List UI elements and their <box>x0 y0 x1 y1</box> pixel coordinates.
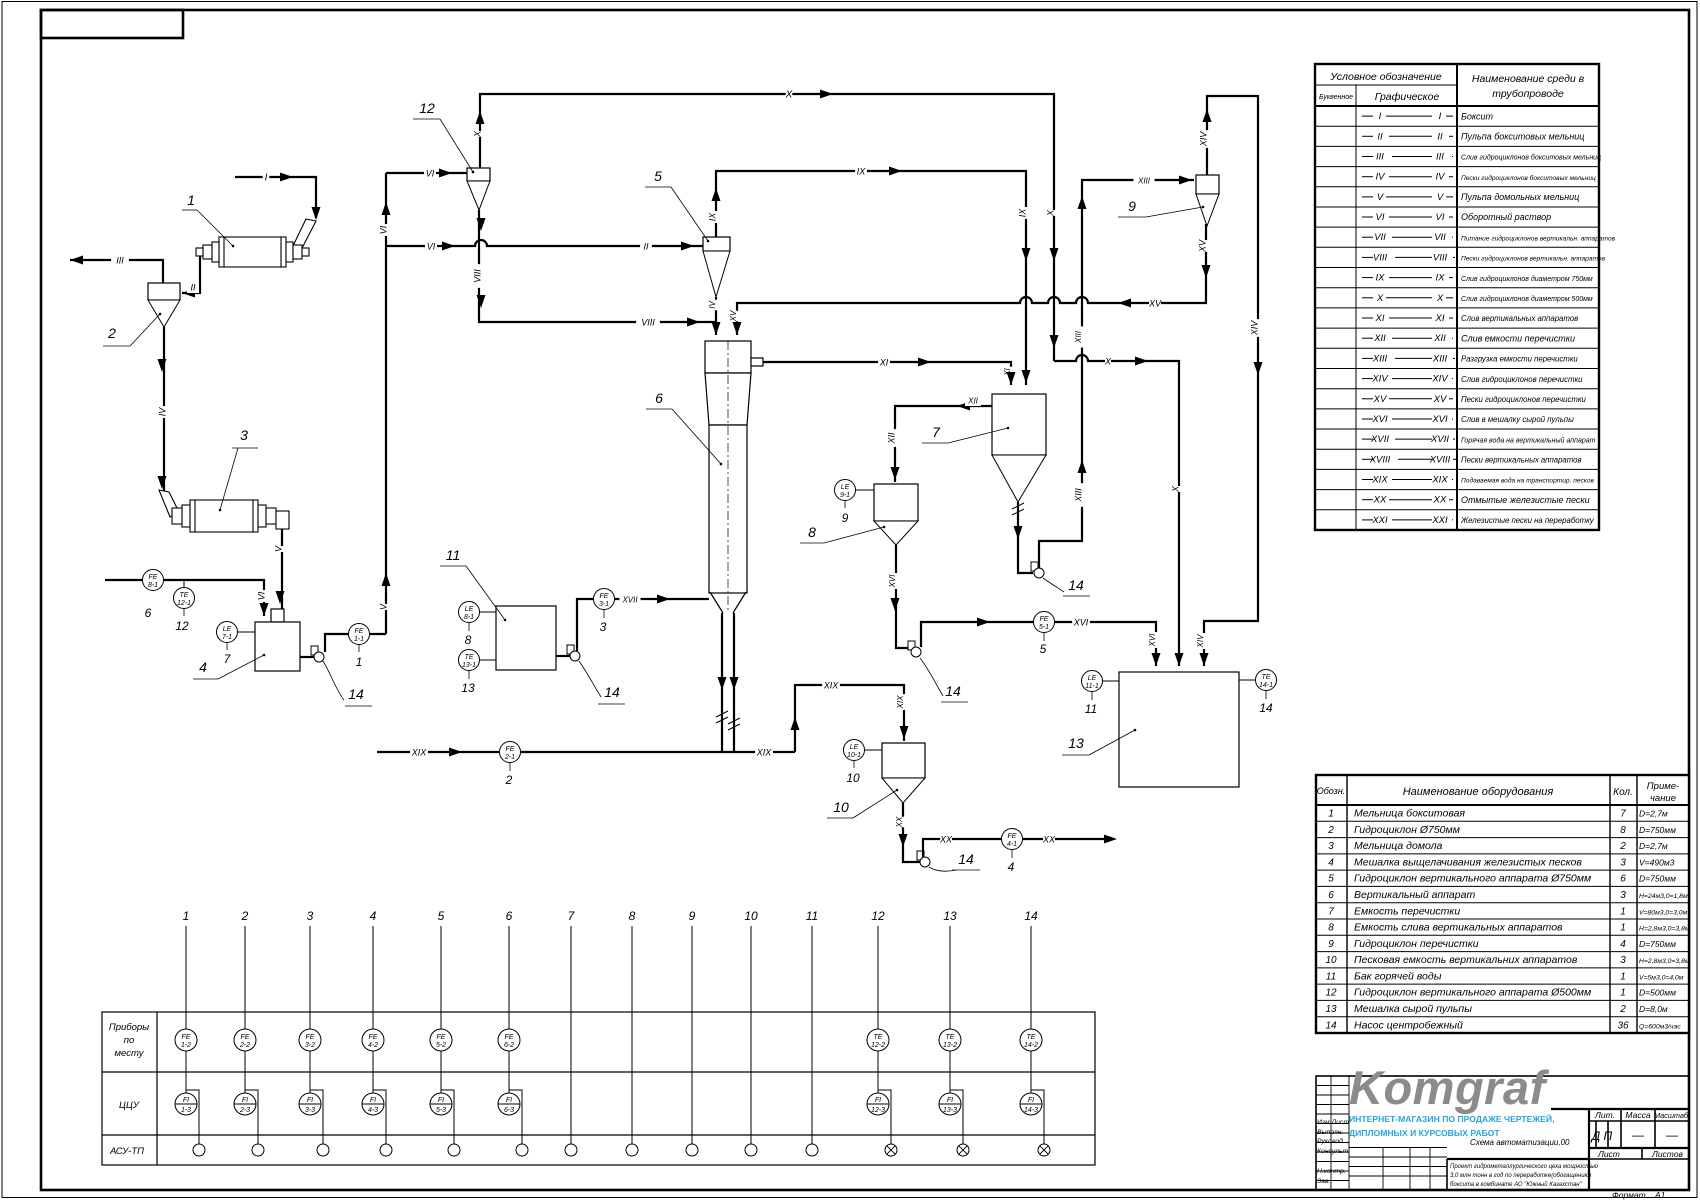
svg-text:12: 12 <box>1325 988 1337 999</box>
svg-text:Изм.Лист: Изм.Лист <box>1317 1119 1349 1126</box>
svg-text:IX: IX <box>707 212 717 222</box>
svg-text:Приборы: Приборы <box>109 1022 149 1033</box>
wire XIX transport water line with FE 2-1 <box>377 751 795 753</box>
svg-text:Листов: Листов <box>1651 1149 1684 1159</box>
svg-text:1-1: 1-1 <box>354 636 364 643</box>
svg-text:Кол.: Кол. <box>1613 787 1633 798</box>
wire hydrocyclone 5 overflow (IX) to tank 7 <box>716 171 1026 385</box>
svg-text:4-1: 4-1 <box>1007 841 1017 848</box>
wire XVII hot water to apparatus 6 with FE 3-1 <box>577 599 709 651</box>
svg-text:XIII: XIII <box>1432 353 1448 364</box>
legend row IV <box>1315 186 1599 188</box>
svg-text:TE: TE <box>946 1034 955 1041</box>
svg-text:XIII: XIII <box>1073 488 1083 503</box>
svg-text:Гидроциклон вертикального аппа: Гидроциклон вертикального аппарата Ø750м… <box>1354 873 1591 885</box>
svg-text:VII: VII <box>1434 232 1446 243</box>
svg-text:Емкость перечистки: Емкость перечистки <box>1354 905 1460 917</box>
svg-text:VIII: VIII <box>1433 252 1448 263</box>
svg-text:XI: XI <box>1375 313 1385 324</box>
svg-text:XIX: XIX <box>1371 475 1388 486</box>
svg-text:8: 8 <box>1620 825 1626 836</box>
equipment row 9 <box>1316 951 1689 953</box>
svg-text:8: 8 <box>629 909 636 923</box>
equipment row 10 <box>1316 967 1689 969</box>
svg-text:Руковод.: Руковод. <box>1317 1137 1345 1145</box>
svg-text:14: 14 <box>1024 909 1038 923</box>
svg-text:XIV: XIV <box>1431 374 1449 385</box>
svg-text:36: 36 <box>1617 1020 1629 1031</box>
svg-text:2-1: 2-1 <box>504 754 515 761</box>
equipment row 2 <box>1316 837 1689 839</box>
svg-text:XVIII: XVIII <box>1429 454 1451 465</box>
svg-text:XXI: XXI <box>1371 515 1388 526</box>
svg-text:X: X <box>1436 293 1444 304</box>
legend row XI <box>1315 327 1599 329</box>
svg-text:FE: FE <box>1040 616 1049 623</box>
svg-text:Слив гидроциклонов перечистки: Слив гидроциклонов перечистки <box>1461 375 1583 384</box>
mill 3 (regrind mill) <box>172 500 289 532</box>
svg-text:11: 11 <box>1085 702 1097 716</box>
svg-text:Гидроциклон перечистки: Гидроциклон перечистки <box>1354 938 1479 950</box>
svg-text:XIV: XIV <box>1371 374 1389 385</box>
svg-text:2: 2 <box>241 909 249 923</box>
svg-text:II: II <box>1377 131 1383 142</box>
mill 1 (bauxite mill) <box>196 237 309 267</box>
svg-text:XI: XI <box>879 358 889 368</box>
wire XX washed sand out with FE 4-1 <box>923 839 1104 857</box>
svg-text:X: X <box>1376 293 1384 304</box>
svg-text:11: 11 <box>806 909 818 923</box>
legend row VIII <box>1315 267 1599 269</box>
svg-text:XIX: XIX <box>896 695 905 710</box>
svg-text:XVII: XVII <box>621 596 638 605</box>
svg-text:IV: IV <box>157 407 167 417</box>
instrument strip table <box>102 1012 1095 1165</box>
wire hydrocyclone 5 underflow (IV) into apparatus 6 <box>715 297 717 335</box>
svg-text:Бак горячей воды: Бак горячей воды <box>1354 970 1442 982</box>
svg-text:9: 9 <box>842 511 849 525</box>
svg-text:FE: FE <box>600 593 609 600</box>
svg-text:FE: FE <box>1008 833 1017 840</box>
svg-text:D=2,7м: D=2,7м <box>1639 841 1668 851</box>
wire stream VI to mixer 4 with FE 8-1 and TE 12-1 <box>105 580 264 616</box>
svg-text:Консульт.: Консульт. <box>1317 1148 1350 1155</box>
svg-text:9-1: 9-1 <box>840 492 850 499</box>
wire XVI to mixer 13 with FE 5-1 <box>921 622 1156 666</box>
svg-text:14: 14 <box>1259 701 1273 715</box>
legend row IX <box>1315 287 1599 289</box>
svg-text:2: 2 <box>1619 841 1626 852</box>
svg-text:10: 10 <box>744 909 758 923</box>
wire tank 7 bottom to pump 14 <box>1018 502 1033 573</box>
svg-text:D=750мм: D=750мм <box>1639 939 1676 949</box>
svg-text:4: 4 <box>1328 857 1334 868</box>
svg-text:10: 10 <box>846 771 860 785</box>
svg-text:TE: TE <box>1027 1034 1036 1041</box>
svg-text:II: II <box>190 283 196 293</box>
svg-text:VI: VI <box>1376 212 1385 223</box>
pump 14 at mixer 4 <box>300 656 314 658</box>
svg-text:14: 14 <box>348 686 364 702</box>
legend row XIII <box>1315 368 1599 370</box>
svg-text:3: 3 <box>600 620 607 634</box>
svg-text:13-3: 13-3 <box>943 1107 957 1114</box>
svg-text:Наименование среди в: Наименование среди в <box>1472 73 1585 85</box>
wire stream I feed <box>235 177 316 218</box>
svg-text:3: 3 <box>1328 841 1334 852</box>
equipment row 11 <box>1316 983 1689 985</box>
svg-text:Слив гидроциклонов диаметром 7: Слив гидроциклонов диаметром 750мм <box>1461 275 1593 283</box>
svg-text:FE: FE <box>505 1034 514 1041</box>
svg-text:1: 1 <box>1620 906 1626 917</box>
svg-text:XX: XX <box>939 835 953 845</box>
svg-text:TE: TE <box>465 654 474 661</box>
svg-text:боксита в комбинате АО "Южный: боксита в комбинате АО "Южный Казахстан" <box>1450 1181 1583 1188</box>
svg-text:FI: FI <box>875 1097 881 1104</box>
pump 14 at tank 7 <box>1031 562 1038 571</box>
hydrocyclone 9 <box>1196 175 1219 194</box>
svg-text:Насос центробежный: Насос центробежный <box>1354 1019 1463 1031</box>
svg-text:FE: FE <box>506 746 515 753</box>
svg-text:чание: чание <box>1650 793 1676 804</box>
svg-text:1: 1 <box>1620 988 1626 999</box>
svg-text:XIX: XIX <box>823 681 840 691</box>
svg-text:Схема автоматизации,00: Схема автоматизации,00 <box>1470 1138 1570 1147</box>
legend row XIV <box>1315 388 1599 390</box>
svg-text:Железистые пески на переработк: Железистые пески на переработку <box>1460 516 1595 525</box>
wire tank 10 discharge to pump <box>903 803 920 862</box>
svg-text:XV: XV <box>1148 299 1162 309</box>
tank 8 <box>874 484 918 521</box>
svg-text:X: X <box>472 130 482 138</box>
svg-text:1-2: 1-2 <box>181 1042 191 1049</box>
wire tank 7 overflow (XII) down to tank 8 <box>895 406 992 482</box>
svg-text:FI: FI <box>506 1097 512 1104</box>
svg-text:5-1: 5-1 <box>1039 624 1049 631</box>
svg-text:13: 13 <box>1068 735 1084 751</box>
wire overflow XI from apparatus 6 to tank 7 <box>763 362 1011 385</box>
svg-text:FI: FI <box>947 1097 953 1104</box>
svg-text:Пески гидроциклонов вертикальн: Пески гидроциклонов вертикальн. аппарато… <box>1461 255 1606 263</box>
legend row VII <box>1315 246 1599 248</box>
svg-text:Мельница домола: Мельница домола <box>1354 840 1443 852</box>
svg-text:12-3: 12-3 <box>871 1107 885 1114</box>
svg-text:8: 8 <box>1328 923 1334 934</box>
wire tank 8 discharge to pump <box>896 545 911 648</box>
svg-text:XX: XX <box>1433 495 1447 506</box>
equipment row 4 <box>1316 869 1689 871</box>
svg-text:Пески гидроциклонов бокситовых: Пески гидроциклонов бокситовых мельниц <box>1461 174 1596 182</box>
legend row XVI <box>1315 428 1599 430</box>
legend row VI <box>1315 226 1599 228</box>
svg-text:FI: FI <box>242 1097 248 1104</box>
svg-text:Н.контр.: Н.контр. <box>1317 1168 1346 1175</box>
svg-text:2: 2 <box>1619 1004 1626 1015</box>
svg-text:X: X <box>1170 485 1180 493</box>
svg-text:4: 4 <box>370 909 377 923</box>
svg-text:LE: LE <box>841 484 850 491</box>
svg-text:IX: IX <box>1376 273 1386 284</box>
svg-text:3-1: 3-1 <box>599 601 609 608</box>
equipment table <box>1316 775 1689 1033</box>
svg-text:14: 14 <box>945 683 961 699</box>
svg-text:D=750мм: D=750мм <box>1639 874 1676 884</box>
svg-text:Условное обозначение: Условное обозначение <box>1329 71 1442 83</box>
tank 7 (emkost perechistki) <box>992 394 1046 455</box>
svg-text:по: по <box>124 1035 135 1046</box>
legend row XVII <box>1315 448 1599 450</box>
svg-text:Пульпа бокситовых мельниц: Пульпа бокситовых мельниц <box>1461 132 1584 142</box>
svg-text:3: 3 <box>1620 857 1626 868</box>
svg-text:4: 4 <box>1620 939 1626 950</box>
svg-text:XIII: XIII <box>1372 353 1388 364</box>
wire hydrocyclone 9 overflow (XIV) to mixer 13 <box>1204 96 1258 666</box>
svg-text:V=5м3,0=4,0м: V=5м3,0=4,0м <box>1639 974 1684 981</box>
svg-text:ИНТЕРНЕТ-МАГАЗИН ПО ПРОДАЖЕ ЧЕ: ИНТЕРНЕТ-МАГАЗИН ПО ПРОДАЖЕ ЧЕРТЕЖЕЙ, <box>1349 1113 1554 1124</box>
equipment row 7 <box>1316 918 1689 920</box>
title block left grid <box>1316 1076 1447 1190</box>
svg-text:13-2: 13-2 <box>943 1042 957 1049</box>
svg-text:II: II <box>1437 131 1443 142</box>
svg-text:2-2: 2-2 <box>239 1042 250 1049</box>
svg-text:Отмытые железистые пески: Отмытые железистые пески <box>1461 495 1590 505</box>
svg-text:LE: LE <box>465 606 474 613</box>
svg-text:Пульпа домольных мельниц: Пульпа домольных мельниц <box>1461 192 1579 202</box>
svg-text:Боксит: Боксит <box>1461 111 1494 121</box>
svg-text:XII: XII <box>1373 333 1386 344</box>
svg-text:XVI: XVI <box>1431 414 1448 425</box>
svg-text:6: 6 <box>145 606 152 620</box>
svg-text:FI: FI <box>307 1097 313 1104</box>
svg-text:XVI: XVI <box>1371 414 1388 425</box>
svg-text:11-1: 11-1 <box>1085 683 1099 690</box>
svg-text:III: III <box>1376 152 1384 163</box>
svg-text:ДИПЛОМНЫХ И КУРСОВЫХ РАБОТ: ДИПЛОМНЫХ И КУРСОВЫХ РАБОТ <box>1349 1128 1500 1138</box>
mixer 13 (raw pulp mixer) <box>1119 672 1239 787</box>
wire XIII riser from pump to hydrocyclone 9 <box>1039 180 1194 568</box>
svg-text:5: 5 <box>1040 642 1047 656</box>
wire hydrocyclone 2 underflow (IV) to mill 3 <box>163 327 165 492</box>
instrument LE 11-1 <box>1102 680 1119 682</box>
svg-text:6-2: 6-2 <box>504 1042 514 1049</box>
svg-text:1-3: 1-3 <box>181 1107 191 1114</box>
equipment row 5 <box>1316 885 1689 887</box>
legend row XVIII <box>1315 468 1599 470</box>
svg-text:Слив емкости перечистки: Слив емкости перечистки <box>1461 333 1575 343</box>
svg-text:Слив гидроциклонов диаметром 5: Слив гидроциклонов диаметром 500мм <box>1461 295 1593 303</box>
svg-text:TE: TE <box>180 592 189 599</box>
svg-text:FE: FE <box>355 628 364 635</box>
svg-text:2-3: 2-3 <box>239 1107 250 1114</box>
svg-text:14: 14 <box>604 684 620 700</box>
wire II/VI feed to hydrocyclone 5 <box>386 240 703 246</box>
instrument LE 8-1 <box>479 611 496 613</box>
svg-text:6: 6 <box>506 909 513 923</box>
svg-text:8: 8 <box>808 524 816 540</box>
svg-text:Масштаб: Масштаб <box>1654 1111 1689 1120</box>
wire riser V/VI <box>385 173 387 634</box>
svg-text:XI: XI <box>1435 313 1445 324</box>
svg-text:FE: FE <box>369 1034 378 1041</box>
pump 14 at tank 8 <box>908 641 915 650</box>
svg-text:Песковая емкость вертикальних: Песковая емкость вертикальних аппаратов <box>1354 954 1578 966</box>
legend row V <box>1315 206 1599 208</box>
svg-text:XV: XV <box>729 310 738 322</box>
svg-text:11: 11 <box>1326 971 1336 982</box>
svg-text:X: X <box>1104 357 1112 367</box>
svg-text:Обозн.: Обозн. <box>1317 786 1346 796</box>
svg-text:2: 2 <box>107 325 116 341</box>
legend row II <box>1315 145 1599 147</box>
svg-text:10: 10 <box>833 799 849 815</box>
svg-text:Формат: Формат <box>1612 1190 1646 1200</box>
svg-text:XV: XV <box>1373 394 1388 405</box>
svg-text:XII: XII <box>1433 333 1446 344</box>
svg-text:IV: IV <box>708 301 717 309</box>
svg-text:Мешалка выщелачивания железист: Мешалка выщелачивания железистых песков <box>1354 856 1582 868</box>
svg-text:Мельница бокситовая: Мельница бокситовая <box>1354 808 1465 820</box>
svg-text:VI: VI <box>378 225 388 234</box>
svg-text:X: X <box>785 90 793 101</box>
wire hydrocyclone 12 overflow (X) to mixer 13 <box>480 94 1054 361</box>
svg-text:X: X <box>1045 209 1055 217</box>
svg-text:месту: месту <box>115 1048 145 1059</box>
svg-text:XVII: XVII <box>1370 434 1389 445</box>
svg-text:5: 5 <box>654 168 662 184</box>
svg-text:FI: FI <box>370 1097 376 1104</box>
wire XV from hydrocyclone 9 into apparatus 6 <box>737 224 1206 335</box>
svg-text:Подаваемая вода на транспортир: Подаваемая вода на транспортир. песков <box>1461 477 1595 485</box>
instrument LE 7-1 <box>237 631 255 633</box>
svg-text:Проект гидрометаллургического: Проект гидрометаллургического цеха мощно… <box>1450 1164 1598 1170</box>
svg-text:12: 12 <box>175 619 189 633</box>
hydrocyclone 2 <box>148 283 180 300</box>
svg-text:VI: VI <box>427 242 436 252</box>
svg-text:Слив гидроциклонов бокситовых: Слив гидроциклонов бокситовых мельниц <box>1461 154 1601 162</box>
svg-text:9: 9 <box>1328 939 1334 950</box>
svg-text:VIII: VIII <box>1373 252 1388 263</box>
svg-text:III: III <box>116 256 124 266</box>
instrument TE 14-1 <box>1239 679 1256 681</box>
svg-text:D=2,7м: D=2,7м <box>1639 809 1668 819</box>
svg-text:XVI: XVI <box>1073 618 1089 628</box>
svg-text:LE: LE <box>223 626 232 633</box>
svg-text:5: 5 <box>1328 874 1334 885</box>
svg-text:XII: XII <box>967 397 979 406</box>
svg-text:Выполн.: Выполн. <box>1317 1129 1343 1136</box>
hydrocyclone 12 <box>467 168 490 181</box>
pump 14 at box 11 <box>556 655 570 657</box>
svg-text:8: 8 <box>465 633 472 647</box>
svg-text:14: 14 <box>958 851 974 867</box>
svg-text:12: 12 <box>419 100 435 116</box>
svg-text:1: 1 <box>1328 809 1334 820</box>
svg-text:Емкость слива вертикальных апп: Емкость слива вертикальных аппаратов <box>1354 922 1563 934</box>
svg-text:12: 12 <box>871 909 885 923</box>
svg-text:7-1: 7-1 <box>222 634 232 641</box>
svg-text:3-2: 3-2 <box>305 1042 315 1049</box>
svg-text:4-2: 4-2 <box>368 1042 378 1049</box>
svg-text:4: 4 <box>1008 860 1015 874</box>
svg-text:Komgraf: Komgraf <box>1349 1061 1550 1114</box>
top-left stamp rectangle <box>41 10 183 38</box>
svg-text:XXI: XXI <box>1431 515 1448 526</box>
svg-text:VI: VI <box>426 169 435 179</box>
svg-text:1: 1 <box>356 655 363 669</box>
svg-text:FE: FE <box>437 1034 446 1041</box>
svg-text:IX: IX <box>857 167 867 177</box>
svg-text:Пески гидроциклонов перечистки: Пески гидроциклонов перечистки <box>1461 395 1587 404</box>
svg-text:VII: VII <box>1374 232 1386 243</box>
svg-text:VI: VI <box>256 591 266 600</box>
svg-text:Д П: Д П <box>1590 1129 1613 1143</box>
svg-text:FE: FE <box>241 1034 250 1041</box>
wire mill 3 discharge (V) to mixer 4 <box>281 529 283 610</box>
svg-text:D=750мм: D=750мм <box>1639 825 1676 835</box>
svg-text:XV: XV <box>1197 239 1207 253</box>
svg-text:XIII: XIII <box>1074 330 1083 344</box>
svg-text:I: I <box>1439 111 1442 122</box>
wire hydrocyclone 2 overflow (III) <box>70 260 163 283</box>
legend row XII <box>1315 347 1599 349</box>
mill 3 feed chute <box>159 490 179 517</box>
svg-text:5-3: 5-3 <box>436 1107 446 1114</box>
svg-text:3: 3 <box>1620 955 1626 966</box>
svg-text:13: 13 <box>943 909 957 923</box>
svg-text:7: 7 <box>1620 809 1626 820</box>
svg-text:Питание гидроциклонов вертикал: Питание гидроциклонов вертикальн. аппара… <box>1461 234 1616 242</box>
svg-text:XIII: XIII <box>1137 177 1151 186</box>
svg-text:FE: FE <box>182 1034 191 1041</box>
svg-text:А1: А1 <box>1654 1190 1666 1200</box>
svg-text:9: 9 <box>689 909 696 923</box>
svg-text:Лист: Лист <box>1597 1149 1620 1159</box>
svg-text:TE: TE <box>874 1034 883 1041</box>
svg-text:V: V <box>273 545 283 552</box>
svg-text:АСУ-ТП: АСУ-ТП <box>109 1146 144 1157</box>
svg-text:Вертикальный аппарат: Вертикальный аппарат <box>1354 889 1475 901</box>
svg-text:XX: XX <box>1373 495 1387 506</box>
svg-text:H=2,8м3,0=3,8м: H=2,8м3,0=3,8м <box>1639 958 1690 965</box>
svg-text:14: 14 <box>1068 577 1084 593</box>
svg-text:XII: XII <box>886 432 896 445</box>
title block frame <box>1316 1076 1689 1190</box>
svg-text:2: 2 <box>505 773 513 787</box>
svg-text:Гидроциклон Ø750мм: Гидроциклон Ø750мм <box>1354 824 1460 836</box>
svg-text:Горячая вода на вертикальный а: Горячая вода на вертикальный аппарат <box>1461 436 1596 444</box>
svg-text:—: — <box>1666 1128 1678 1142</box>
svg-text:Слив в мешалку сырой пульпы: Слив в мешалку сырой пульпы <box>1461 415 1574 424</box>
svg-text:II: II <box>643 242 649 252</box>
wire apparatus 6 sand legs (XVIII) <box>721 613 723 752</box>
svg-text:13: 13 <box>461 681 475 695</box>
svg-text:4-3: 4-3 <box>368 1107 378 1114</box>
equipment row 13 <box>1316 1016 1689 1018</box>
wire X horizontal to tank 13 riser <box>1054 355 1179 666</box>
svg-text:XIX: XIX <box>756 748 773 758</box>
svg-text:XVI: XVI <box>888 574 897 589</box>
svg-text:XVIII: XVIII <box>1369 454 1391 465</box>
svg-text:FI: FI <box>1028 1097 1034 1104</box>
svg-text:7: 7 <box>932 424 941 440</box>
wire VI to hydrocyclone 12 <box>386 172 467 174</box>
svg-text:4: 4 <box>199 659 207 675</box>
svg-text:1: 1 <box>1620 971 1626 982</box>
svg-text:14-3: 14-3 <box>1024 1107 1038 1114</box>
svg-text:XIX: XIX <box>1431 475 1448 486</box>
svg-text:FE: FE <box>306 1034 315 1041</box>
svg-text:ЦЦУ: ЦЦУ <box>119 1100 140 1111</box>
